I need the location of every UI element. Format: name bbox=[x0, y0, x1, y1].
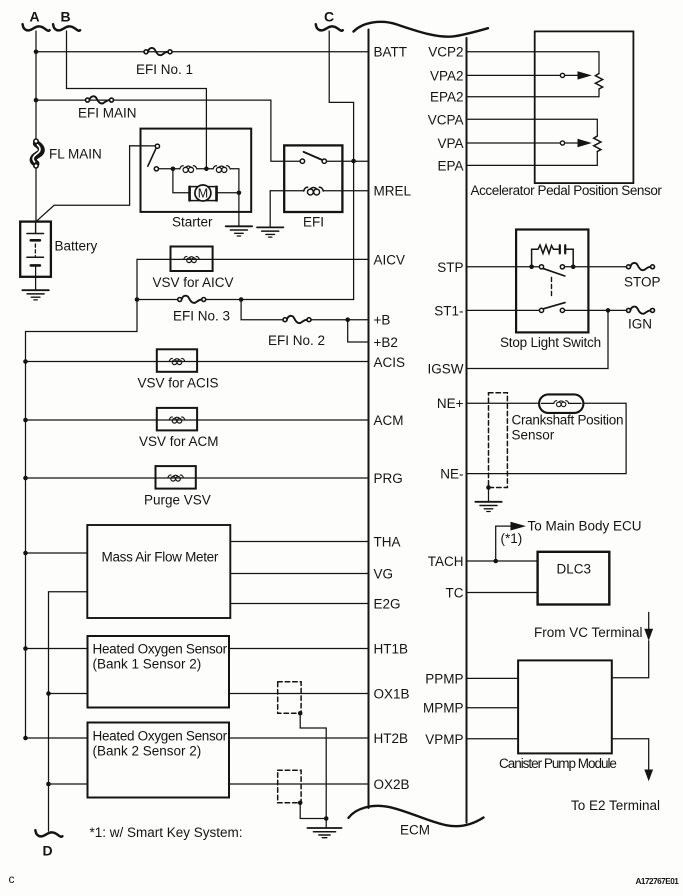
svg-text:EFI No. 3: EFI No. 3 bbox=[173, 309, 230, 324]
arrow to main body ECU bbox=[496, 522, 526, 561]
ground starter bbox=[226, 226, 252, 236]
wire E2G ground bus bbox=[49, 592, 88, 831]
ECM terminal labels right bbox=[423, 45, 464, 748]
starter switch bbox=[148, 144, 160, 171]
ECM bottom wave bbox=[349, 806, 484, 826]
Mass Air Flow Meter box bbox=[87, 525, 230, 618]
wire IGSW bbox=[467, 310, 609, 368]
wire B to starter coil bbox=[67, 31, 207, 169]
svg-text:MREL: MREL bbox=[374, 184, 412, 199]
svg-text:VCPA: VCPA bbox=[428, 112, 464, 127]
node STP left junction bbox=[529, 265, 534, 270]
node starter motor-right junction bbox=[237, 191, 242, 196]
svg-text:(Bank 1 Sensor 2): (Bank 1 Sensor 2) bbox=[93, 657, 202, 672]
node PRG junction bbox=[23, 476, 28, 481]
svg-text:Heated Oxygen Sensor: Heated Oxygen Sensor bbox=[93, 642, 228, 657]
svg-text:c: c bbox=[9, 872, 15, 886]
wire TC row bbox=[467, 592, 538, 594]
VSV for ACIS box bbox=[157, 349, 197, 372]
node ACIS junction bbox=[23, 359, 28, 364]
svg-text:MPMP: MPMP bbox=[423, 701, 464, 716]
node shield2 drain bbox=[298, 801, 303, 806]
svg-text:NE+: NE+ bbox=[437, 396, 464, 411]
svg-text:AICV: AICV bbox=[374, 253, 406, 268]
svg-text:OX1B: OX1B bbox=[374, 687, 410, 702]
wire EPA2 bbox=[467, 89, 600, 97]
node shield1 drain bbox=[298, 711, 303, 716]
wire VCPA bbox=[467, 119, 598, 136]
wire NE shield to ground bbox=[488, 488, 490, 502]
svg-text:C: C bbox=[324, 9, 334, 25]
EFI relay coil bbox=[304, 187, 324, 195]
node starter coil feed junction bbox=[204, 167, 209, 172]
wire EFI No.3 row bbox=[137, 299, 354, 301]
svg-text:M: M bbox=[198, 187, 208, 201]
wire battery to starter switch bbox=[36, 146, 156, 222]
svg-text:+B: +B bbox=[374, 313, 391, 328]
svg-text:ECM: ECM bbox=[400, 823, 430, 838]
capacitor stop light bbox=[560, 245, 565, 253]
node IGN junction bbox=[606, 308, 611, 313]
wire ST1- row bbox=[467, 309, 629, 311]
wire EPA bbox=[467, 152, 598, 166]
node HT2B junction bbox=[23, 736, 28, 741]
svg-text:D: D bbox=[43, 843, 53, 859]
switch stop lower bbox=[539, 303, 565, 313]
svg-text:TC: TC bbox=[446, 586, 464, 601]
Heated Oxygen Sensor Bank1 box bbox=[88, 636, 230, 708]
node HT1B junction bbox=[23, 646, 28, 651]
svg-text:IGN: IGN bbox=[628, 317, 652, 332]
shield OX2B dashed box bbox=[278, 770, 301, 803]
fuse EFI No. 2 bbox=[283, 316, 311, 323]
starter motor M bbox=[189, 185, 217, 201]
ECM right border bbox=[466, 38, 468, 823]
wire EFI No.2 row / +B bbox=[241, 300, 368, 320]
svg-text:ACIS: ACIS bbox=[374, 355, 406, 370]
node EFI No.3 junction bbox=[135, 297, 140, 302]
svg-text:A172767E01: A172767E01 bbox=[636, 877, 680, 886]
svg-text:ST1-: ST1- bbox=[434, 304, 463, 319]
wire EFI MAIN row bbox=[36, 100, 300, 161]
ground NE shield bbox=[475, 502, 501, 512]
svg-text:PRG: PRG bbox=[374, 471, 403, 486]
wire shield1 drain bbox=[300, 713, 326, 818]
coil VSV ACM bbox=[169, 417, 185, 423]
wire FL MAIN to battery bbox=[35, 168, 37, 222]
svg-text:+B2: +B2 bbox=[374, 335, 398, 350]
svg-text:STOP: STOP bbox=[624, 275, 661, 290]
ground battery bbox=[22, 290, 48, 300]
coil Purge VSV bbox=[168, 475, 184, 481]
shield NE dashed box bbox=[489, 393, 508, 488]
svg-text:HT2B: HT2B bbox=[374, 731, 409, 746]
Canister Pump Module box bbox=[518, 660, 612, 753]
svg-text:IGSW: IGSW bbox=[428, 362, 464, 377]
coil VSV ACIS bbox=[169, 358, 185, 364]
wire C to EFI relay output bbox=[329, 31, 353, 161]
wire PRG row bbox=[26, 477, 369, 479]
svg-text:VPMP: VPMP bbox=[425, 732, 463, 747]
wire EFI coil to ground bbox=[269, 191, 271, 227]
crankshaft position sensor coil bbox=[539, 394, 583, 413]
svg-text:EFI: EFI bbox=[303, 215, 324, 230]
wire VG row bbox=[230, 573, 368, 575]
node A-EFI MAIN junction bbox=[34, 98, 39, 103]
ECM left border bbox=[368, 30, 370, 809]
svg-text:DLC3: DLC3 bbox=[557, 562, 592, 577]
fusible link FL MAIN bbox=[33, 139, 102, 168]
wire VPA2 wiper bbox=[467, 71, 592, 79]
ECM top wave bbox=[354, 22, 489, 37]
svg-text:B: B bbox=[61, 9, 71, 25]
EFI relay switch bbox=[300, 152, 326, 164]
node NE shield drain bbox=[486, 485, 491, 490]
node STP right junction bbox=[571, 265, 576, 270]
svg-text:HT1B: HT1B bbox=[374, 642, 409, 657]
wire OX1B row bbox=[49, 693, 369, 695]
shield OX1B dashed box bbox=[278, 682, 301, 714]
wire HT1B row bbox=[26, 648, 369, 650]
fuse IGN bbox=[627, 307, 655, 314]
node A-BATT junction bbox=[34, 50, 39, 55]
ground EFI relay bbox=[257, 227, 283, 237]
svg-text:Canister Pump Module: Canister Pump Module bbox=[499, 756, 616, 771]
wire starter motor branch bbox=[173, 169, 189, 193]
VSV for ACM box bbox=[157, 408, 197, 431]
svg-text:THA: THA bbox=[374, 535, 401, 550]
wire shield2 drain bbox=[300, 803, 326, 819]
svg-text:VPA2: VPA2 bbox=[430, 69, 464, 84]
connector D bbox=[35, 830, 62, 858]
node EFI relay output junction bbox=[351, 159, 356, 164]
svg-text:EFI No. 1: EFI No. 1 bbox=[136, 62, 193, 77]
VSV for AICV box bbox=[171, 247, 213, 272]
node MAF junction bbox=[23, 551, 28, 556]
wire VPMP row bbox=[467, 738, 519, 740]
starter coil 1 bbox=[180, 166, 197, 173]
fuse STOP bbox=[627, 263, 655, 270]
switch stop upper bbox=[539, 265, 564, 276]
node starter switch-motor junction bbox=[171, 167, 176, 172]
resistor stop light bbox=[532, 245, 559, 267]
svg-text:EPA2: EPA2 bbox=[430, 90, 464, 105]
svg-text:TACH: TACH bbox=[428, 554, 464, 569]
svg-text:(*1): (*1) bbox=[501, 531, 523, 546]
ground shield drain bbox=[308, 828, 342, 838]
connector A bbox=[23, 9, 50, 31]
svg-text:VG: VG bbox=[374, 567, 394, 582]
svg-text:Accelerator Pedal Position Sen: Accelerator Pedal Position Sensor bbox=[471, 183, 663, 198]
coil VSV AICV bbox=[184, 256, 200, 262]
wire VCP2 bbox=[467, 52, 600, 74]
svg-text:Heated Oxygen Sensor: Heated Oxygen Sensor bbox=[93, 729, 228, 744]
arrow from VC terminal bbox=[612, 612, 653, 677]
svg-text:Sensor: Sensor bbox=[512, 428, 555, 443]
starter coil 2 bbox=[213, 166, 230, 173]
svg-text:Crankshaft Position: Crankshaft Position bbox=[512, 413, 624, 428]
svg-text:STP: STP bbox=[437, 260, 463, 275]
ECM terminal labels left bbox=[374, 45, 412, 793]
wire VPA wiper bbox=[467, 139, 592, 147]
svg-text:EFI No. 2: EFI No. 2 bbox=[268, 333, 325, 348]
wire STP row bbox=[467, 266, 629, 268]
svg-text:VSV for ACIS: VSV for ACIS bbox=[138, 376, 219, 391]
connector B bbox=[53, 9, 80, 31]
fuse EFI No. 3 bbox=[178, 296, 206, 303]
svg-text:NE-: NE- bbox=[440, 467, 463, 482]
wire left bus feed bbox=[26, 300, 138, 739]
svg-text:Stop Light Switch: Stop Light Switch bbox=[500, 335, 601, 350]
wire EFI relay switch output bbox=[327, 161, 368, 299]
wire E2G row bbox=[230, 603, 368, 605]
wire HT2B row bbox=[26, 737, 369, 739]
wire A bus vertical bbox=[35, 31, 37, 139]
wire +B2 bbox=[348, 320, 369, 342]
svg-text:A: A bbox=[30, 9, 40, 25]
svg-text:PPMP: PPMP bbox=[425, 672, 463, 687]
svg-text:E2G: E2G bbox=[374, 597, 401, 612]
svg-text:VPA: VPA bbox=[437, 136, 463, 151]
svg-text:EFI MAIN: EFI MAIN bbox=[78, 106, 137, 121]
node OX1B junction bbox=[46, 691, 51, 696]
wire ACM row bbox=[26, 419, 369, 421]
fuse EFI No. 1 bbox=[144, 48, 172, 55]
svg-text:FL MAIN: FL MAIN bbox=[49, 147, 102, 162]
svg-text:*1: w/ Smart Key System:: *1: w/ Smart Key System: bbox=[90, 825, 243, 840]
mechanical link dashed bbox=[551, 278, 553, 299]
wire EFI relay coil row / MREL bbox=[270, 190, 368, 192]
svg-text:VCP2: VCP2 bbox=[428, 45, 463, 60]
svg-text:OX2B: OX2B bbox=[374, 777, 410, 792]
connector C bbox=[316, 9, 343, 31]
wire TACH row bbox=[467, 560, 538, 562]
wire motor to ground bbox=[217, 193, 239, 226]
DLC3 box bbox=[538, 552, 610, 605]
resistor pot lower bbox=[594, 136, 601, 152]
svg-text:Mass Air Flow Meter: Mass Air Flow Meter bbox=[102, 550, 219, 565]
svg-text:VSV for ACM: VSV for ACM bbox=[139, 434, 219, 449]
fuse EFI MAIN bbox=[86, 96, 114, 103]
starter box bbox=[141, 129, 252, 212]
resistor pot upper bbox=[595, 74, 602, 90]
svg-text:VSV for AICV: VSV for AICV bbox=[153, 275, 234, 290]
wire starter coil row bbox=[159, 169, 239, 193]
wire battery to ground bbox=[35, 277, 37, 290]
svg-text:(Bank 2 Sensor 2): (Bank 2 Sensor 2) bbox=[93, 744, 202, 759]
node shield drain junction bbox=[324, 816, 329, 821]
node ACM junction bbox=[23, 418, 28, 423]
Purge VSV box bbox=[156, 466, 196, 489]
node +B junction bbox=[345, 317, 350, 322]
Heated Oxygen Sensor Bank2 box bbox=[88, 723, 230, 798]
battery bbox=[20, 222, 97, 277]
Accelerator Pedal Position Sensor box bbox=[535, 31, 634, 183]
node OX2B junction bbox=[46, 782, 51, 787]
wire drain to ground bbox=[325, 819, 327, 828]
node EFI No.2 branch bbox=[239, 297, 244, 302]
wire MPMP row bbox=[467, 707, 519, 709]
svg-text:ACM: ACM bbox=[374, 413, 404, 428]
svg-text:To Main Body ECU: To Main Body ECU bbox=[528, 519, 642, 534]
svg-text:Battery: Battery bbox=[55, 239, 98, 254]
svg-text:EPA: EPA bbox=[437, 159, 463, 174]
wire PPMP row bbox=[467, 677, 519, 679]
svg-text:BATT: BATT bbox=[374, 45, 408, 60]
wire AICV row bbox=[137, 259, 369, 299]
Stop Light Switch box bbox=[516, 230, 588, 333]
wire BATT row bbox=[36, 51, 369, 53]
wire to E2 terminal bbox=[612, 739, 653, 781]
svg-text:Purge VSV: Purge VSV bbox=[144, 493, 211, 508]
svg-text:From VC Terminal: From VC Terminal bbox=[534, 625, 643, 640]
wire NE+ row bbox=[467, 403, 627, 473]
svg-text:Starter: Starter bbox=[172, 215, 213, 230]
wire ACIS row bbox=[26, 361, 369, 363]
wire THA row bbox=[230, 541, 368, 543]
node TACH branch bbox=[493, 559, 498, 564]
EFI relay box bbox=[284, 145, 342, 212]
svg-text:To E2 Terminal: To E2 Terminal bbox=[571, 798, 660, 813]
wire OX2B row bbox=[49, 783, 369, 785]
wire MAF feed bbox=[26, 552, 88, 554]
